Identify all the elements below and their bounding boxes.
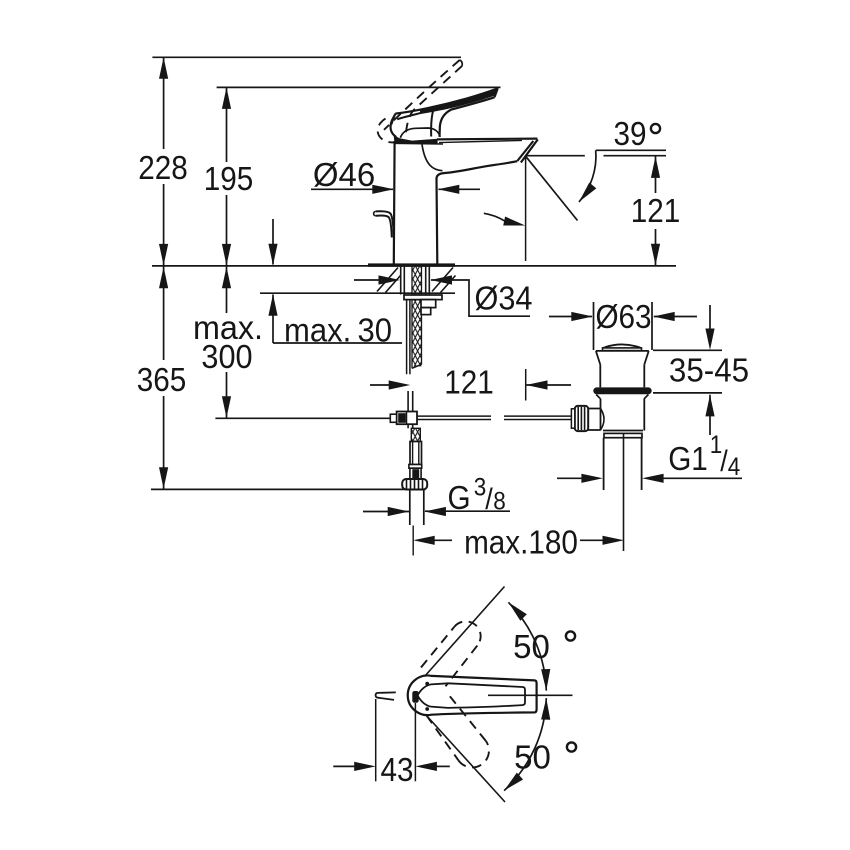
43 dim line right: [436, 765, 450, 767]
dia63 extension lines: [594, 302, 653, 350]
arrow G114 left: [581, 474, 603, 483]
svg-text:Ø63: Ø63: [595, 299, 651, 336]
39deg angle leg line: [596, 149, 666, 151]
35-45 lower extension: [653, 392, 722, 394]
svg-text:365: 365: [137, 362, 187, 399]
side port: [588, 409, 601, 431]
arrow 43 left: [354, 762, 376, 771]
counter hatch right block: [432, 268, 456, 293]
faucet base thick band: [368, 263, 455, 266]
arrow swivel: [503, 217, 526, 230]
svg-text:max. 30: max. 30: [284, 312, 392, 349]
dimension 365 vertical: [163, 267, 165, 489]
svg-text:121: 121: [444, 364, 494, 401]
svg-text:195: 195: [204, 161, 254, 198]
inner supply tube: [407, 300, 410, 375]
svg-text:300: 300: [201, 338, 252, 375]
drain neck upper: [600, 365, 644, 388]
121 mid right extension line: [525, 369, 527, 401]
svg-text:/: /: [720, 445, 728, 479]
arrow max30 down: [268, 244, 277, 266]
arrow 50down start: [541, 698, 551, 720]
arrow dia46 right: [438, 185, 460, 194]
svg-text:Ø34: Ø34: [475, 279, 533, 316]
arrow 228 bottom: [159, 244, 168, 266]
arrow 50down end: [501, 773, 523, 794]
tailpipe centerline: [623, 433, 625, 551]
lever outline top view: [408, 676, 537, 716]
arrow 39deg arc: [575, 182, 596, 204]
phantom blade lower edge: [406, 66, 463, 138]
svg-text:/: /: [485, 483, 493, 517]
tailpipe: [604, 438, 642, 490]
handle tip face: [495, 88, 498, 97]
dia34 dim line left: [354, 279, 380, 281]
tee left stub: [390, 414, 396, 422]
handle nose: [391, 114, 397, 137]
35-45 dim verticals: [709, 305, 711, 435]
svg-text:8: 8: [493, 487, 506, 515]
G114 dim right: [663, 477, 742, 479]
arrow G114 right: [642, 474, 664, 483]
max180 left extension line: [412, 526, 414, 556]
arrow 3545 up: [705, 395, 714, 417]
hose nut ring: [409, 465, 422, 469]
arrow 195 bottom: [222, 244, 231, 266]
stream vertical to counter: [525, 156, 527, 261]
body top seam dark band: [394, 135, 438, 144]
spout top line: [437, 138, 537, 141]
mounting washer: [404, 295, 442, 300]
extension line 228 top: [152, 56, 461, 58]
svg-text:228: 228: [138, 150, 188, 187]
svg-text:Ø46: Ø46: [313, 156, 375, 193]
spout underside: [437, 161, 518, 178]
43 right extension: [414, 703, 416, 781]
drain body: [601, 399, 645, 431]
supply hose upper: [408, 391, 413, 412]
drain collar: [604, 433, 642, 437]
G3/8 pipe: [410, 490, 424, 526]
arrow 121right top: [651, 156, 660, 178]
dimension max300 vertical: [226, 267, 228, 418]
drain cap lip: [603, 348, 642, 351]
hose stub top view: [376, 692, 396, 700]
dia63 dim left: [549, 316, 592, 318]
arrow 43 right: [415, 762, 437, 771]
arrow dia34 left: [379, 275, 401, 284]
drain step: [603, 430, 643, 432]
50deg lower arc: [504, 698, 546, 791]
svg-text:4: 4: [728, 453, 741, 481]
arrow 121right bottom: [651, 244, 660, 266]
svg-text:G: G: [447, 480, 470, 517]
arrow 365 bottom: [159, 467, 168, 489]
body top seam line: [395, 142, 443, 145]
handle blade inner line: [397, 94, 494, 120]
arrow max300 top: [222, 267, 231, 289]
horizontal pop-up rod: [417, 416, 572, 419]
spacer step 1: [421, 300, 436, 308]
arrow 50up end: [541, 669, 551, 691]
dimension 195 vertical: [226, 87, 228, 265]
50deg upper arc: [508, 602, 546, 690]
arrow max30 up: [268, 294, 277, 316]
arrow max180 right: [603, 536, 625, 545]
aerator tip face: [521, 139, 538, 162]
centerline right: [488, 694, 573, 696]
phantom blade tip: [460, 60, 463, 66]
spout top inner line: [439, 140, 522, 142]
lever dots: [425, 682, 429, 686]
max300 bottom line: [215, 417, 390, 419]
handle neck left edge: [431, 110, 433, 136]
max30 underline: [273, 342, 402, 344]
phantom nose: [378, 119, 394, 143]
svg-text:G1: G1: [668, 441, 708, 478]
extension line 195 top: [217, 86, 501, 88]
arrow 3545 down: [705, 329, 714, 351]
hose curl outlet: [376, 211, 394, 237]
dia46 dim line right: [439, 188, 481, 190]
43 dim line left: [333, 765, 355, 767]
arrow 121mid right: [526, 380, 548, 389]
svg-text:50: 50: [514, 739, 551, 776]
pop-up rod tee: [397, 412, 417, 425]
dia63 dim right: [654, 316, 697, 318]
counter top line: [152, 265, 676, 267]
arrow dia46 left: [372, 185, 394, 194]
43 left extension: [375, 699, 377, 781]
arrow G38 right: [424, 507, 446, 516]
max30 upper leader: [272, 219, 274, 265]
121 mid dim left: [370, 384, 390, 386]
handle blade tip wedge: [420, 88, 498, 114]
121 mid dim right: [527, 384, 572, 386]
arrow max300 bottom: [222, 396, 231, 418]
50deg lower diagonal: [426, 715, 505, 802]
arrow max180 left: [413, 536, 435, 545]
phantom levers top view: [421, 621, 489, 767]
body right edge: [435, 179, 438, 264]
body left edge: [393, 141, 396, 264]
phantom lever up: [421, 627, 454, 668]
arrow dia34 right: [431, 275, 453, 284]
50deg upper diagonal: [425, 587, 505, 677]
hose crosshatch section: [411, 428, 420, 441]
knurled connector nut: [402, 479, 427, 490]
121 right extension line: [526, 155, 666, 157]
handle blade top edge: [395, 88, 498, 113]
threaded stud crosshatch: [412, 267, 422, 367]
aerator dark band: [517, 141, 533, 161]
phantom blade upper edge: [384, 60, 460, 130]
35-45 upper extension: [653, 349, 722, 351]
G38 leader underline: [425, 510, 510, 512]
dia34 leader right: [431, 280, 530, 316]
hose nut hex: [410, 468, 421, 479]
G114 dim left: [557, 477, 582, 479]
drain seal ring: [593, 387, 651, 394]
svg-text:max.180: max.180: [464, 524, 578, 561]
arrow 121mid left: [389, 380, 411, 389]
in-hole tubes: [401, 267, 430, 295]
svg-text:43: 43: [380, 752, 413, 789]
svg-text:121: 121: [631, 193, 681, 230]
arrow 228 top: [159, 57, 168, 79]
supply hose below tee: [408, 424, 413, 428]
swivel arc: [484, 213, 505, 221]
365 bottom line: [151, 488, 426, 490]
121 right dim vertical: [655, 157, 657, 266]
knurled adjuster knob: [575, 406, 588, 431]
counter hatch left block: [377, 268, 401, 293]
cartridge slot mark: [412, 691, 418, 703]
spacer step 2: [421, 308, 431, 315]
max180 dim line right: [580, 539, 605, 541]
dia46 dim line left: [311, 188, 393, 190]
knob end cap: [571, 409, 574, 428]
top view arrowheads: [354, 599, 551, 794]
arrow 195 top: [222, 87, 231, 109]
arrow 50up start: [505, 599, 527, 621]
stud angled end: [412, 364, 422, 368]
lever inner contour: [418, 683, 526, 708]
drain flange: [596, 351, 649, 365]
svg-text:39: 39: [613, 116, 646, 153]
39deg arc: [579, 150, 596, 202]
counter bottom line: [260, 292, 455, 294]
body fillet curve: [422, 145, 443, 171]
ring lower taper: [596, 395, 648, 399]
handle blade bottom edge: [440, 97, 495, 137]
cartridge dome: [400, 128, 440, 138]
arrow dia63 right: [653, 312, 675, 321]
max30 lower leader: [272, 295, 274, 344]
water stream diagonal: [526, 156, 578, 220]
handle nose facet: [392, 116, 395, 125]
arrow dia63 left: [571, 312, 593, 321]
dimension 228 vertical: [163, 57, 165, 265]
arrow 365 top: [159, 267, 168, 289]
max180 dim line left: [432, 539, 452, 541]
svg-text:35-45: 35-45: [669, 352, 749, 389]
phantom lever down: [427, 716, 459, 761]
braided hose section: [410, 442, 422, 465]
drain cap dome: [605, 344, 642, 348]
arrow G38 left: [388, 507, 410, 516]
G38 dim left: [363, 511, 409, 513]
